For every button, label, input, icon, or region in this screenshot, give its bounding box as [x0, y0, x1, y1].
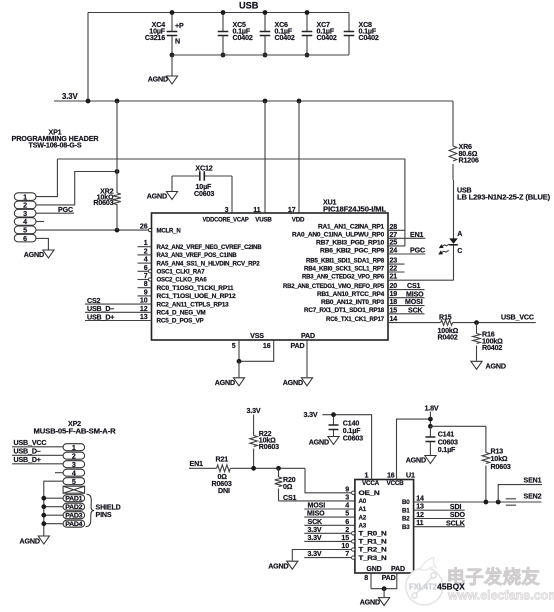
svg-text:R0402: R0402: [482, 344, 502, 352]
pin 11 VUSB top pin: [253, 206, 272, 223]
svg-text:C0402: C0402: [233, 34, 253, 42]
svg-text:VUSB: VUSB: [255, 216, 272, 223]
svg-text:2: 2: [23, 202, 27, 210]
svg-text:26: 26: [140, 223, 148, 231]
connector XP2 pin 2 box: [63, 452, 85, 460]
svg-text:R0402: R0402: [438, 334, 458, 342]
svg-text:B3: B3: [402, 524, 410, 531]
connector XP2 pin 4 box + stub: [55, 469, 85, 477]
svg-text:25: 25: [390, 239, 398, 247]
svg-text:+P: +P: [175, 22, 184, 30]
svg-text:T_R3_N: T_R3_N: [359, 555, 388, 562]
pin 20 RB2 / node CS1: [283, 282, 425, 290]
connector XP2 pin 1 box: [63, 444, 85, 452]
svg-text:12: 12: [416, 511, 424, 519]
connector XP2 PAD1 box: [63, 495, 85, 503]
svg-text:PAD3: PAD3: [65, 513, 83, 520]
svg-text:R1206: R1206: [459, 157, 479, 165]
svg-text:R0603: R0603: [491, 463, 511, 471]
svg-text:4: 4: [345, 502, 349, 510]
pin 2 T_R0_N: [345, 526, 387, 538]
node USB_D- to XP2 pin2: [12, 447, 63, 455]
node 3.3V to T_R1_N: [304, 534, 351, 542]
svg-text:USB_D+: USB_D+: [14, 456, 41, 464]
svg-text:11: 11: [416, 519, 423, 527]
pin 21 RB3 wire to LED cathode: [302, 273, 454, 281]
svg-text:DNI: DNI: [218, 487, 230, 495]
wire 1.8V rail to R13: [430, 425, 486, 427]
node SEN1: [498, 476, 542, 502]
svg-text:SDI: SDI: [450, 503, 462, 511]
ground AGND below PAD: [283, 378, 313, 387]
svg-text:PAD: PAD: [382, 574, 396, 582]
svg-text:9: 9: [144, 288, 148, 296]
svg-text:RC4_D_NEG_VM: RC4_D_NEG_VM: [157, 310, 206, 317]
node 3.3V for C140: [304, 411, 318, 419]
svg-text:13: 13: [416, 503, 424, 511]
svg-text:24: 24: [390, 247, 398, 255]
ground AGND for XC12: [147, 176, 178, 201]
wire XP1 pin4 no-connect stub: [36, 221, 44, 223]
svg-text:RB0_AN12_INT0_RP3: RB0_AN12_INT0_RP3: [321, 299, 385, 306]
resistor R21 0R R0603 DNI in series: [189, 456, 305, 495]
pin 8 RC0: [138, 280, 235, 292]
pin 13 RC5 / node USB_D+: [85, 313, 204, 325]
svg-text:A: A: [457, 230, 462, 238]
svg-text:6: 6: [23, 235, 27, 243]
svg-text:2: 2: [72, 452, 76, 460]
resistor R15 100k R0402 in series to USB_VCC: [388, 314, 536, 342]
svg-text:SCK: SCK: [308, 518, 324, 526]
pin 6 OSC1: [138, 264, 206, 276]
capacitor XC6 0.1uF C0402: [260, 10, 295, 57]
pin 26 MCLR_N: [140, 223, 181, 235]
svg-text:7: 7: [144, 272, 148, 280]
svg-text:3.3V: 3.3V: [304, 411, 318, 419]
resistor XR6 80.6 R1206: [449, 101, 479, 239]
svg-text:C0603: C0603: [343, 435, 363, 443]
connector XP2 title: [34, 420, 116, 435]
svg-text:RC6_TX1_CK1_RP17: RC6_TX1_CK1_RP17: [326, 316, 385, 323]
wire XP2 pin5 and shield pads to ground: [41, 481, 63, 535]
svg-text:10: 10: [140, 297, 148, 305]
pin 10 RC2 / node CS2: [85, 297, 229, 309]
node 3.3V rail: [54, 92, 453, 103]
svg-text:PAD4: PAD4: [65, 521, 83, 528]
pin 25 RB7 PGD: [316, 239, 397, 247]
pin PAD bottom: [290, 332, 315, 378]
node SHIELD PINS brace: [86, 494, 121, 527]
pin 17 VDD top pin: [288, 206, 305, 223]
svg-text:USB_D–: USB_D–: [14, 447, 41, 455]
node MOSI to A1: [304, 502, 354, 510]
connector XP1 programming header title: [12, 128, 99, 149]
svg-text:SEN1: SEN1: [524, 476, 542, 484]
svg-text:RA0_AN0_C1INA_ULPWU_RP0: RA0_AN0_C1INA_ULPWU_RP0: [292, 232, 385, 239]
node EN1 wire start: [190, 460, 204, 468]
svg-text:12: 12: [140, 305, 148, 313]
svg-text:EN1: EN1: [410, 231, 424, 239]
pin 3 VDDCORE_VCAP top pin: [203, 206, 249, 223]
svg-text:CS2: CS2: [87, 297, 101, 305]
svg-text:VDD: VDD: [292, 216, 305, 223]
pin 14 RC6: [326, 315, 397, 323]
svg-text:C141: C141: [438, 431, 455, 439]
pin 5 A2: [345, 510, 367, 522]
svg-text:4: 4: [144, 256, 148, 264]
svg-text:USB_D–: USB_D–: [87, 305, 114, 313]
pin 16 VSS bottom: [237, 340, 274, 364]
svg-text:13: 13: [140, 313, 148, 321]
svg-text:45BQX: 45BQX: [437, 583, 465, 592]
pin 4 RA5: [138, 256, 261, 268]
svg-text:PAD: PAD: [290, 342, 304, 350]
svg-text:9: 9: [345, 485, 349, 493]
node PGC stub from XP1 pin3: [36, 206, 74, 214]
svg-text:20: 20: [390, 282, 398, 290]
connector XP1 pin 2 box: [14, 201, 36, 210]
node USB_D+ to XP2 pin3: [12, 456, 63, 464]
node USB_VCC: [501, 314, 534, 322]
pin 5 VSS bottom: [232, 332, 265, 362]
capacitor C140 0.1uF C0603: [329, 412, 364, 442]
svg-text:SEN2: SEN2: [524, 492, 542, 500]
pin 10 T_R2_N: [341, 542, 387, 554]
svg-text:AGND: AGND: [215, 379, 235, 387]
svg-text:15: 15: [341, 534, 349, 542]
wire bottom rail of cap bank: [172, 54, 349, 56]
pin 18 RB0 / node MOSI: [321, 298, 425, 306]
ground AGND below XC4: [148, 55, 178, 84]
connector XP1 pin 3 box: [14, 209, 36, 218]
svg-text:1.8V: 1.8V: [425, 405, 439, 413]
pin 24 RB6 / node PGC: [320, 247, 425, 255]
svg-text:USB_D+: USB_D+: [87, 313, 114, 321]
pin 11 B3 / node SCLK: [402, 519, 466, 531]
svg-text:RA1_AN1_C2INA_RP1: RA1_AN1_C2INA_RP1: [318, 224, 385, 231]
svg-text:C0402: C0402: [359, 34, 379, 42]
pin 16 VCCB top: [387, 419, 431, 487]
pin 6 A3: [345, 518, 367, 530]
wire left vertical from top rail to 3.3V rail: [87, 13, 89, 102]
svg-text:RB2_AN8_CTEDG1_VMO_REFO_RP5: RB2_AN8_CTEDG1_VMO_REFO_RP5: [283, 283, 385, 290]
svg-text:LB L293-N1N2-25-Z (BLUE): LB L293-N1N2-25-Z (BLUE): [457, 194, 551, 202]
svg-text:SCK: SCK: [408, 306, 424, 314]
svg-text:8: 8: [364, 574, 368, 582]
wire PGD line to XU1 pin 25: [57, 159, 405, 246]
svg-text:A2: A2: [359, 514, 367, 521]
svg-text:MISO: MISO: [406, 290, 424, 298]
connector XP1 pin 1 box: [14, 193, 36, 202]
svg-text:RA3_AN3_VREF_POS_C1INB: RA3_AN3_VREF_POS_C1INB: [157, 252, 238, 259]
svg-text:A3: A3: [359, 523, 367, 530]
svg-text:5: 5: [72, 478, 76, 486]
svg-text:C0402: C0402: [317, 34, 337, 42]
ground AGND for T_R2_N: [268, 561, 298, 570]
pin 12 RC4 / node USB_D-: [85, 305, 206, 317]
svg-text:AGND: AGND: [20, 537, 40, 545]
resistor R22 10k R0603 pullup: [250, 415, 279, 469]
svg-text:T_R0_N: T_R0_N: [359, 531, 388, 538]
svg-text:17: 17: [288, 206, 296, 214]
svg-text:TSW-106-08-G-S: TSW-106-08-G-S: [29, 141, 82, 149]
svg-text:T_R1_N: T_R1_N: [359, 539, 388, 546]
node USB LED net name: [457, 187, 551, 202]
svg-text:PIC18F24J50-I/ML: PIC18F24J50-I/ML: [323, 205, 387, 213]
node 3.3V to T_R3_N: [304, 550, 351, 558]
svg-text:VCCA: VCCA: [362, 480, 380, 487]
node 1.8V: [425, 405, 439, 429]
svg-text:PGC: PGC: [410, 247, 425, 255]
svg-text:3.3V: 3.3V: [308, 526, 322, 534]
capacitor XC5 0.1uF C0402: [218, 10, 253, 57]
svg-text:3: 3: [345, 493, 349, 501]
resistor R13 10k R0603: [482, 426, 511, 502]
wire XU1 pin3 VDDCORE_VCAP vertical: [231, 176, 233, 213]
svg-text:VCCB: VCCB: [387, 480, 405, 487]
svg-text:10: 10: [341, 542, 349, 550]
svg-text:3: 3: [72, 461, 76, 469]
svg-text:USB: USB: [239, 0, 259, 10]
svg-text:N: N: [175, 38, 180, 46]
connector XP1 pin 5 box: [14, 226, 36, 235]
svg-text:23: 23: [390, 257, 398, 265]
node 3.3V to T_R0_N: [304, 526, 351, 534]
svg-text:8: 8: [144, 280, 148, 288]
svg-text:XC12: XC12: [195, 164, 212, 172]
svg-text:1: 1: [72, 444, 76, 452]
ground AGND below R16: [471, 361, 506, 370]
svg-text:SCLK: SCLK: [446, 519, 466, 527]
capacitor XC8 0.1uF C0402: [344, 13, 379, 56]
svg-text:PAD1: PAD1: [65, 496, 83, 503]
ground AGND for C140: [309, 437, 339, 447]
svg-text:2: 2: [144, 247, 148, 255]
svg-text:B0: B0: [402, 499, 410, 506]
node USB_VCC to XP2 pin1: [12, 439, 63, 447]
svg-text:AGND: AGND: [147, 193, 167, 201]
node SEN2: [506, 492, 542, 505]
svg-text:C3216: C3216: [145, 34, 165, 42]
svg-text:14: 14: [416, 495, 424, 503]
svg-text:R15: R15: [439, 314, 452, 322]
svg-text:6: 6: [345, 518, 349, 526]
ground AGND below XP2: [20, 536, 50, 545]
capacitor XC4 10uF C3216 (polarized): [145, 10, 184, 57]
svg-text:1: 1: [23, 193, 27, 201]
svg-text:AGND: AGND: [283, 379, 303, 387]
pin 7 OSC2: [138, 272, 208, 284]
svg-text:4: 4: [23, 218, 27, 226]
pin 1 VCCA top: [322, 415, 379, 487]
svg-text:16: 16: [263, 342, 271, 350]
svg-text:U1: U1: [406, 471, 415, 479]
svg-text:B2: B2: [402, 516, 410, 523]
switch U1 FXL4T245 box: [355, 471, 415, 573]
svg-text:22: 22: [390, 265, 398, 273]
svg-text:5: 5: [23, 227, 27, 235]
svg-text:R0603: R0603: [93, 199, 113, 207]
ground AGND below pin 5/16: [215, 361, 245, 387]
svg-text:R0603: R0603: [259, 443, 279, 451]
svg-text:15: 15: [390, 306, 398, 314]
svg-text:USB_VCC: USB_VCC: [14, 439, 47, 447]
resistor XR2 10k R0603: [93, 101, 120, 230]
svg-text:AGND: AGND: [309, 438, 329, 446]
node 3.3V above R22: [247, 407, 261, 415]
resistor R16 100k R0402 to ground: [473, 323, 503, 361]
svg-text:C0603: C0603: [194, 190, 214, 198]
wire EN1 to U1 OE_N pin 9: [305, 468, 351, 493]
wire XP1 pin1 to PGD line: [36, 159, 57, 197]
svg-text:SDO: SDO: [450, 511, 466, 519]
resistor R20 0R to CS1 / A0: [275, 468, 297, 502]
node USB net label: [239, 0, 259, 10]
watermark text: [447, 567, 554, 603]
svg-text:OE_N: OE_N: [359, 490, 381, 497]
pin 15 RC7 / node SCK: [304, 306, 425, 314]
wire XU1 pin11 VUSB vertical to 3.3V: [264, 101, 266, 213]
svg-text:3.3V: 3.3V: [62, 92, 79, 101]
svg-text:MOSI: MOSI: [308, 502, 326, 510]
svg-text:AGND: AGND: [268, 563, 288, 571]
svg-text:0Ω: 0Ω: [283, 483, 293, 491]
svg-text:5: 5: [345, 510, 349, 518]
svg-text:21: 21: [390, 273, 398, 281]
LED blue, anode A top cathode C bottom: [437, 230, 462, 256]
connector XP2 PAD2 box: [63, 503, 85, 511]
wire XP1 pin2 up to XR2 top junction: [36, 169, 119, 205]
connector XP2 shell crossed box: [63, 486, 85, 493]
svg-text:MOSI: MOSI: [405, 298, 423, 306]
svg-text:MISO: MISO: [307, 510, 325, 518]
svg-text:RB4_KBI0_SCK1_SCL1_RP7: RB4_KBI0_SCK1_SCL1_RP7: [304, 265, 385, 272]
svg-text:RB7_KBI3_PGD_RP10: RB7_KBI3_PGD_RP10: [316, 239, 385, 246]
svg-text:PAD: PAD: [301, 332, 315, 340]
pin 27 RA0 / node EN1: [292, 231, 425, 239]
ground AGND below XP1 pin 6: [24, 238, 54, 258]
connector XP1 pin 6 box: [14, 234, 36, 243]
svg-text:VDDCORE_VCAP: VDDCORE_VCAP: [203, 216, 249, 223]
svg-text:PAD2: PAD2: [65, 504, 83, 511]
pin 22 RB4: [304, 265, 405, 273]
pin 4 A1: [345, 502, 367, 514]
svg-text:RB5_KBI1_SDI1_SDA1_RP8: RB5_KBI1_SDI1_SDA1_RP8: [306, 257, 385, 264]
svg-text:B1: B1: [402, 507, 410, 514]
svg-text:RC0_T1OSO_T1CKI_RP11: RC0_T1OSO_T1CKI_RP11: [157, 285, 235, 292]
svg-text:19: 19: [390, 290, 398, 298]
svg-text:PINS: PINS: [96, 511, 112, 519]
svg-text:3.3V: 3.3V: [308, 534, 322, 542]
svg-text:RB1_AN10_RTCC_RP4: RB1_AN10_RTCC_RP4: [317, 291, 385, 298]
wire USB top rail: [88, 12, 349, 14]
ground AGND below U1: [360, 589, 390, 607]
svg-text:RA2_AN2_VREF_NEG_CVREF_C2INB: RA2_AN2_VREF_NEG_CVREF_C2INB: [157, 244, 263, 251]
svg-text:RC2_AN11_CTPLS_RP13: RC2_AN11_CTPLS_RP13: [157, 301, 230, 308]
svg-text:1: 1: [144, 239, 148, 247]
node SCK to A3: [304, 518, 354, 526]
pin 3 A0: [345, 493, 367, 505]
wire LED cathode down to pin 21: [453, 245, 455, 280]
pin 15 T_R1_N: [341, 534, 387, 546]
svg-text:AGND: AGND: [24, 251, 44, 259]
svg-text:T_R2_N: T_R2_N: [359, 547, 388, 554]
watermark logo circle: [406, 558, 443, 605]
svg-text:R21: R21: [216, 456, 229, 464]
svg-text:C0402: C0402: [275, 34, 295, 42]
connector XP2 PAD4 box: [63, 520, 85, 528]
svg-text:A1: A1: [359, 506, 367, 513]
svg-text:OSC2_CLKO_RA6: OSC2_CLKO_RA6: [157, 277, 208, 284]
wire XU1 pin17 VDD vertical to 3.3V: [298, 101, 300, 213]
svg-text:3: 3: [23, 210, 27, 218]
connector XP2 PAD3 box: [63, 512, 85, 520]
wire CS1 to U1 A0 pin 3: [279, 500, 355, 502]
svg-text:A0: A0: [359, 498, 367, 505]
svg-text:RC1_T1OSI_UOE_N_RP12: RC1_T1OSI_UOE_N_RP12: [157, 293, 237, 300]
svg-text:EN1: EN1: [190, 460, 204, 468]
svg-text:7: 7: [345, 550, 349, 558]
pin 7 T_R3_N: [345, 550, 387, 562]
svg-text:18: 18: [390, 298, 398, 306]
connector XP2 pin 5 box: [63, 478, 85, 486]
svg-text:AGND: AGND: [148, 76, 168, 84]
node MISO to A2: [304, 510, 354, 518]
svg-text:MCLR_N: MCLR_N: [157, 227, 182, 234]
pin 12 B2 / node SDO: [402, 511, 465, 523]
value label FXL4T245BQX: [409, 583, 465, 592]
pin 2 RA3: [138, 247, 238, 259]
svg-text:5: 5: [232, 342, 236, 350]
pin 1 RA2: [138, 239, 263, 251]
pin 19 RB1 / node MISO: [317, 290, 425, 298]
svg-text:USB_VCC: USB_VCC: [501, 314, 534, 322]
pin 9 OE_N: [345, 485, 380, 497]
pin 8 GND bottom: [364, 565, 381, 589]
wire XP1 pin5 to XU1 MCLR_N pin 26: [36, 228, 149, 233]
svg-text:VSS: VSS: [250, 332, 264, 340]
svg-text:AGND: AGND: [406, 457, 426, 465]
svg-text:1: 1: [365, 471, 369, 479]
svg-text:C: C: [457, 247, 462, 255]
capacitor XC12 10uF C0603: [172, 164, 232, 198]
svg-text:3: 3: [225, 206, 229, 214]
svg-text:2: 2: [345, 526, 349, 534]
svg-text:RB6_KBI2_PGC_RP9: RB6_KBI2_PGC_RP9: [320, 247, 385, 254]
svg-text:11: 11: [253, 206, 260, 214]
svg-text:AGND: AGND: [360, 599, 380, 607]
ground AGND for C141: [406, 456, 436, 465]
svg-text:FXL4T2: FXL4T2: [409, 583, 438, 592]
op-amp U1 is below; this is microcontroller XU1 PIC18F24J50-I/ML box: [152, 199, 389, 340]
svg-text:RC7_RX1_DT1_SDO1_RP18: RC7_RX1_DT1_SDO1_RP18: [304, 307, 385, 314]
pin 13 B1 / node SDI: [402, 503, 465, 515]
pin 14 B0 wire to SEN2: [402, 495, 542, 507]
svg-text:3.3V: 3.3V: [308, 550, 322, 558]
connector XP2 pin 3 box: [63, 461, 85, 469]
wire T_R2_N to ground: [292, 550, 351, 561]
svg-text:MUSB-05-F-AB-SM-A-R: MUSB-05-F-AB-SM-A-R: [34, 427, 116, 435]
svg-text:OSC1_CLKI_RA7: OSC1_CLKI_RA7: [157, 269, 206, 276]
pin 23 RB5: [306, 257, 405, 265]
svg-text:3.3V: 3.3V: [247, 407, 261, 415]
svg-text:28: 28: [390, 223, 398, 231]
svg-text:RA5_AN4_SS1_N_HLVDIN_RCV_RP2: RA5_AN4_SS1_N_HLVDIN_RCV_RP2: [157, 260, 261, 267]
svg-text:AGND: AGND: [486, 362, 506, 370]
svg-text:PAD: PAD: [391, 565, 405, 573]
pin PAD bottom of U1: [371, 565, 405, 591]
connector XP1 pin 4 box: [14, 218, 36, 227]
